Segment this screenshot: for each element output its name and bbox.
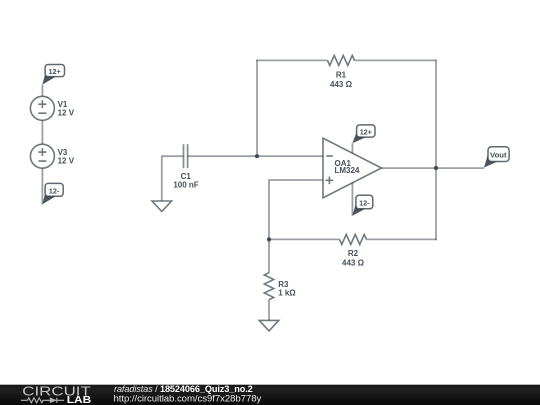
wire (right column output row down to R2 row): [435, 168, 437, 240]
svg-text:1 kΩ: 1 kΩ: [278, 288, 296, 297]
svg-text:12+: 12+: [360, 127, 372, 136]
resistor R1: [328, 55, 355, 65]
resistor R2: [340, 234, 367, 244]
wire (12+ to V1): [41, 85, 43, 97]
wire (R2 row right of R2): [367, 238, 437, 240]
svg-text:100 nF: 100 nF: [173, 180, 198, 189]
junction (plus input / R3 node): [267, 237, 271, 241]
net label 12+ (left branch top) flag shape: [42, 65, 64, 85]
footer bar: [0, 385, 540, 405]
svg-text:Vout: Vout: [490, 150, 507, 159]
svg-text:12+: 12+: [48, 67, 60, 76]
svg-text:LM324: LM324: [335, 166, 360, 175]
net label 12+ (op-amp V+) flag shape: [352, 125, 375, 143]
junction (minus input node): [255, 154, 259, 158]
svg-text:12-: 12-: [49, 186, 60, 195]
capacitor C1: [184, 144, 188, 168]
wire (V1 to V3): [41, 120, 43, 144]
ground (under C1): [152, 201, 172, 212]
svg-text:R2: R2: [348, 249, 359, 258]
footer bar top separator: [0, 384, 540, 385]
wire (R2 row left of R2): [269, 238, 340, 240]
net label Vout flag shape: [484, 147, 509, 168]
ground (under R3): [259, 320, 279, 331]
wire (node to op-amp minus input): [257, 155, 323, 157]
wire (V3 to 12-): [41, 168, 43, 204]
net label 12- (op-amp V-) flag shape: [352, 195, 373, 215]
wire (C1 left lead and ground drop): [162, 156, 184, 201]
svg-text:443 Ω: 443 Ω: [330, 80, 353, 89]
svg-text:http://circuitlab.com/cs9f7x28: http://circuitlab.com/cs9f7x28b778y: [114, 393, 262, 404]
CircuitLab logo resistor-diode line: [21, 398, 64, 404]
svg-text:12 V: 12 V: [58, 157, 75, 166]
wire (node up to R1 row): [256, 60, 258, 157]
net label 12- (left branch bottom) flag shape: [42, 183, 63, 204]
svg-text:12-: 12-: [359, 198, 370, 207]
wire (op-amp output to Vout): [382, 167, 484, 169]
voltage source V1: [30, 96, 54, 120]
wire (op-amp plus input): [269, 180, 323, 239]
wire (R3 to ground): [268, 300, 270, 321]
wire (right column down to output row): [435, 60, 437, 168]
svg-text:LAB: LAB: [67, 395, 91, 405]
svg-text:R1: R1: [336, 71, 347, 80]
wire (node down to R3): [268, 239, 270, 272]
svg-text:443 Ω: 443 Ω: [342, 258, 365, 267]
op-amp OA1: [323, 138, 382, 215]
wire (C1 right lead to node): [188, 155, 257, 157]
resistor R3: [264, 273, 273, 300]
junction (output feedback node): [434, 166, 438, 170]
wire (top row left of R1): [256, 59, 327, 61]
voltage source V3: [30, 144, 54, 168]
wire (top row right of R1): [355, 59, 437, 61]
svg-text:12 V: 12 V: [58, 109, 75, 118]
